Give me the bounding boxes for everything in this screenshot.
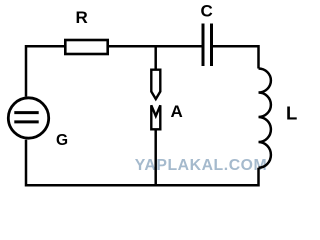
svg-text:A: A xyxy=(171,102,183,121)
svg-text:G: G xyxy=(56,132,68,149)
svg-text:C: C xyxy=(201,1,213,20)
svg-text:R: R xyxy=(76,8,88,27)
svg-text:L: L xyxy=(286,103,297,124)
